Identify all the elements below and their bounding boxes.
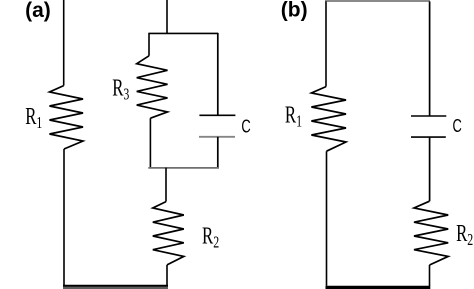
- wire left-branch top (a): [63, 0, 65, 86]
- wire box bottom (a): [148, 167, 219, 169]
- wire middle-branch top (a): [166, 0, 168, 34]
- svg-text:R2: R2: [202, 224, 219, 252]
- capacitor C top plate (b): [411, 115, 446, 117]
- wire R2 top stub (a): [165, 168, 167, 202]
- label R2 (a): [202, 224, 219, 252]
- wire left-branch bottom (a): [63, 149, 65, 286]
- capacitor C bottom plate (a): [199, 136, 235, 138]
- svg-text:C: C: [241, 117, 250, 137]
- label R3 (a): [112, 76, 129, 104]
- wire bottom (a): [63, 286, 168, 288]
- svg-text:(a): (a): [25, 0, 51, 22]
- wire R2 exit (a): [166, 265, 168, 286]
- wire box right upper (a): [217, 33, 219, 115]
- resistor R3 (a): [137, 56, 168, 118]
- label C (b): [453, 117, 462, 137]
- label R1 (a): [25, 104, 42, 132]
- wire left-branch top (b): [325, 1, 327, 86]
- wire R3 top stub (a): [148, 33, 150, 56]
- wire below capacitor (a): [217, 137, 219, 168]
- svg-text:R3: R3: [112, 76, 129, 104]
- svg-text:R1: R1: [25, 104, 42, 132]
- wire R3 bottom stub (a): [149, 118, 151, 168]
- resistor R2 (b): [414, 201, 448, 265]
- wire top (b): [325, 0, 430, 2]
- wire below capacitor (b): [429, 137, 431, 201]
- label (a): [25, 0, 51, 22]
- svg-text:R2: R2: [456, 221, 473, 249]
- resistor R1 (a): [50, 86, 84, 149]
- label R1 (b): [285, 103, 302, 131]
- wire bottom (b): [326, 286, 431, 289]
- svg-text:(b): (b): [281, 0, 308, 22]
- wire right-branch top (b): [429, 1, 431, 116]
- wire R2 exit (b): [429, 265, 431, 286]
- resistor R1 (b): [311, 87, 346, 152]
- label R2 (b): [456, 221, 473, 249]
- wire left-branch bottom (b): [326, 151, 328, 286]
- svg-text:R1: R1: [285, 103, 302, 131]
- label C (a): [241, 117, 250, 137]
- capacitor C top plate (a): [199, 114, 235, 116]
- svg-text:C: C: [453, 117, 462, 137]
- capacitor C bottom plate (b): [411, 136, 446, 138]
- label (b): [281, 0, 308, 22]
- resistor R2 (a): [153, 202, 184, 265]
- wire box top (a): [149, 32, 219, 34]
